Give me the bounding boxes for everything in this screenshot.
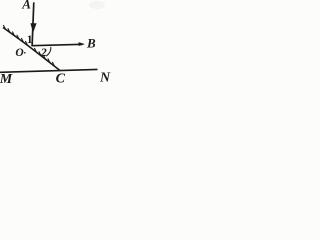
svg-text:M: M [0,72,13,84]
svg-text:C: C [56,71,66,84]
svg-text:N: N [99,71,111,84]
svg-text:B: B [86,36,96,51]
svg-text:1: 1 [27,34,33,46]
svg-text:2: 2 [40,45,47,59]
svg-text:A: A [21,0,31,12]
svg-text:O: O [15,47,23,59]
